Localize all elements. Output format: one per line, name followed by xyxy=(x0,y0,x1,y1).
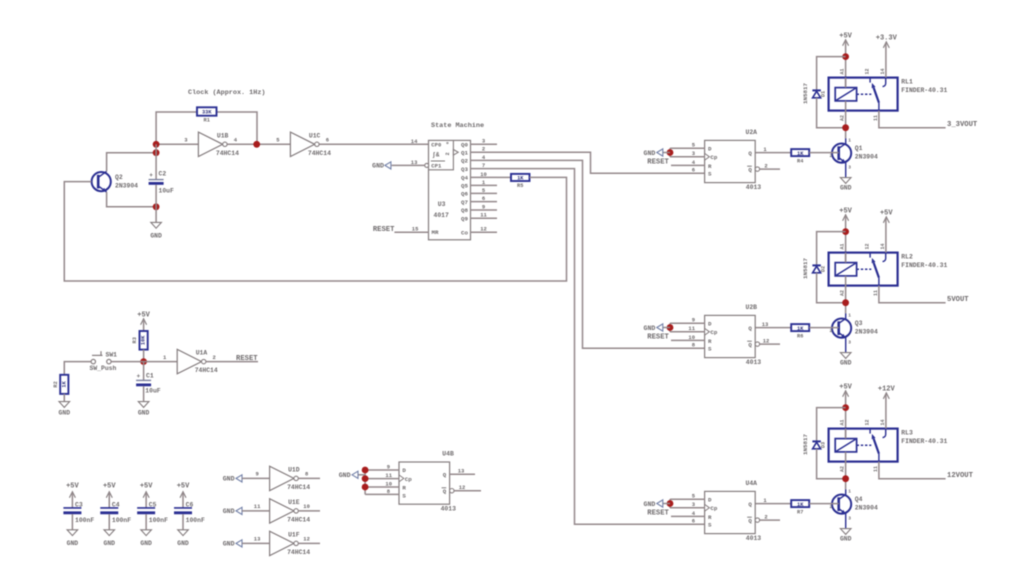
svg-text:2: 2 xyxy=(830,328,833,334)
svg-text:4013: 4013 xyxy=(746,535,762,542)
transistor Q1 2N3904 xyxy=(830,138,878,178)
wire RESET to R pin xyxy=(671,339,705,341)
node coil+ junction xyxy=(842,53,849,60)
ground flag U1E input xyxy=(223,507,242,515)
op-amp U3 4017 counter body xyxy=(425,140,471,239)
capacitor C6 100nF xyxy=(174,502,205,524)
svg-text:+5V: +5V xyxy=(839,383,852,391)
node reset junction xyxy=(140,358,147,365)
ground under Q3 xyxy=(840,353,852,367)
svg-text:+5V: +5V xyxy=(839,32,852,40)
wire switch right xyxy=(111,361,177,363)
wire C2 to GND xyxy=(155,185,157,223)
svg-text:GND: GND xyxy=(59,410,71,417)
svg-text:RESET: RESET xyxy=(647,333,669,341)
wire D to gnd xyxy=(670,147,705,149)
svg-text:+5V: +5V xyxy=(839,207,852,215)
svg-text:RESET: RESET xyxy=(647,509,669,517)
svg-text:9: 9 xyxy=(482,203,485,210)
svg-text:2: 2 xyxy=(764,513,767,520)
wire relay A2 to collector xyxy=(845,452,847,490)
svg-text:12: 12 xyxy=(763,337,770,344)
wire pin 11 to output xyxy=(879,111,946,128)
svg-text:5VOUT: 5VOUT xyxy=(947,296,969,304)
svg-text:A1: A1 xyxy=(840,419,846,425)
wire U3 CP1 to GND flag xyxy=(392,164,425,166)
wire relay A1 inside xyxy=(845,429,847,439)
svg-text:1K: 1K xyxy=(797,326,804,332)
svg-text:Co: Co xyxy=(461,229,468,236)
wire diode branch top xyxy=(817,408,846,442)
svg-text:4013: 4013 xyxy=(441,506,457,513)
svg-text:D3: D3 xyxy=(820,442,826,448)
svg-text:S: S xyxy=(708,171,712,178)
wire Q4 to R5 xyxy=(497,176,511,178)
svg-text:FINDER-40.31: FINDER-40.31 xyxy=(901,262,947,269)
svg-text:GND: GND xyxy=(372,163,384,170)
power +5V C5 xyxy=(140,482,153,497)
svg-text:12VOUT: 12VOUT xyxy=(947,472,974,480)
wire R4 to base xyxy=(809,152,839,154)
wire +3.3V to pin 14 xyxy=(885,43,887,78)
wire U3 Q2 stub pin 4 xyxy=(471,159,498,161)
svg-text:GND: GND xyxy=(138,410,150,417)
svg-text:GND: GND xyxy=(644,501,656,508)
wire U1C out to U3 CP0 xyxy=(319,143,428,145)
ground flag U2A xyxy=(644,149,670,157)
wire node to C1 xyxy=(143,362,145,380)
svg-text:Q: Q xyxy=(748,518,752,525)
svg-text:1K: 1K xyxy=(61,380,67,387)
svg-text:R: R xyxy=(402,484,406,491)
wire Cp to gnd xyxy=(670,148,705,157)
svg-text:S: S xyxy=(402,492,406,499)
svg-text:13: 13 xyxy=(762,321,769,328)
power +5V relay contact xyxy=(880,210,893,223)
svg-text:Cp: Cp xyxy=(710,505,717,512)
svg-text:R: R xyxy=(708,163,712,170)
ground under C1 xyxy=(138,402,150,417)
wire U1F output stub xyxy=(298,542,320,544)
svg-text:U1C: U1C xyxy=(309,132,321,139)
node coil+ junction xyxy=(842,228,849,235)
svg-text:RESET: RESET xyxy=(236,355,258,363)
wire diode branch bottom xyxy=(817,273,846,303)
wire relay A1 inside xyxy=(845,78,847,88)
op-amp U4A 4013 flip-flop xyxy=(705,480,762,542)
wire U3 Q0 stub pin 3 xyxy=(471,143,498,145)
svg-text:1N5817: 1N5817 xyxy=(802,83,809,104)
svg-text:U1E: U1E xyxy=(288,499,300,506)
svg-text:Clock (Approx. 1Hz): Clock (Approx. 1Hz) xyxy=(188,89,266,97)
svg-text:Q3: Q3 xyxy=(855,320,863,327)
svg-text:RESET: RESET xyxy=(373,226,395,234)
svg-text:GND: GND xyxy=(223,541,235,548)
wire +5V to C3 xyxy=(71,493,73,508)
node U1B input junction xyxy=(153,141,160,148)
node A2 junction xyxy=(842,475,849,482)
power +5V C4 xyxy=(103,482,116,497)
wire Q1 to U2A S xyxy=(497,152,705,173)
svg-text:74HC14: 74HC14 xyxy=(287,516,310,523)
svg-text:100nF: 100nF xyxy=(149,517,168,524)
wire Q2 emitter xyxy=(107,192,157,207)
svg-text:R4: R4 xyxy=(797,158,804,164)
svg-text:R2: R2 xyxy=(53,381,59,387)
svg-text:GND: GND xyxy=(177,540,189,547)
svg-text:U4B: U4B xyxy=(442,450,454,457)
ground under C6 xyxy=(177,530,189,547)
svg-text:10K: 10K xyxy=(141,335,147,345)
op-amp U1E (74HC14 inverter) xyxy=(254,499,310,524)
svg-text:Q2: Q2 xyxy=(461,158,468,165)
svg-text:3: 3 xyxy=(848,340,851,346)
wire U3 Q7 stub pin 6 xyxy=(471,201,498,203)
resistor R6 1K xyxy=(791,324,809,339)
svg-text:1K: 1K xyxy=(797,502,804,508)
ground flag U1F input xyxy=(223,540,242,548)
wire U3 Q9 stub pin 11 xyxy=(471,217,498,219)
capacitor C4 100nF xyxy=(100,502,131,524)
resistor R7 1K xyxy=(791,500,809,515)
svg-text:RL2: RL2 xyxy=(901,254,913,261)
svg-text:74HC14: 74HC14 xyxy=(195,367,218,374)
wire switch left xyxy=(64,362,91,375)
relay RL1 FINDER-40.31 xyxy=(829,68,948,121)
node C2 bottom junction xyxy=(153,203,160,210)
svg-text:U1D: U1D xyxy=(288,466,300,473)
node coil+ junction xyxy=(842,404,849,411)
transistor Q3 2N3904 xyxy=(830,313,878,353)
svg-text:12: 12 xyxy=(864,419,870,425)
power +12V relay contact xyxy=(878,386,896,399)
wire C4 to GND xyxy=(108,514,110,530)
wire gnd to U1E xyxy=(242,510,270,512)
svg-text:Q: Q xyxy=(443,488,447,495)
svg-text:14: 14 xyxy=(880,419,886,425)
wire +5V to R3 xyxy=(143,320,145,332)
node U4B Cp junction xyxy=(362,475,369,482)
wire 4013 Q to R7 xyxy=(755,503,791,505)
wire relay A2 to collector xyxy=(845,276,847,314)
svg-text:º: º xyxy=(446,141,449,148)
svg-text:GND: GND xyxy=(223,476,235,483)
svg-text:4013: 4013 xyxy=(746,184,762,191)
capacitor C2 xyxy=(149,171,174,195)
svg-text:74HC14: 74HC14 xyxy=(287,484,310,491)
node Q2 collector junction xyxy=(153,149,160,156)
svg-text:SW1: SW1 xyxy=(106,352,118,359)
svg-text:6: 6 xyxy=(692,518,695,525)
svg-text:D: D xyxy=(708,321,712,328)
wire diode branch bottom xyxy=(817,449,846,479)
svg-text:10uF: 10uF xyxy=(145,388,161,395)
svg-text:D: D xyxy=(402,467,406,474)
svg-text:R1: R1 xyxy=(204,117,210,123)
svg-text:C2: C2 xyxy=(159,171,167,178)
svg-text:1: 1 xyxy=(848,313,851,319)
svg-text:11: 11 xyxy=(873,466,879,472)
svg-text:+: + xyxy=(149,172,153,179)
svg-text:CP0: CP0 xyxy=(431,141,442,148)
wire relay A2 to collector xyxy=(845,101,847,138)
svg-text:2: 2 xyxy=(213,354,216,361)
node U4B R junction xyxy=(362,484,369,491)
svg-text:U4A: U4A xyxy=(746,480,758,487)
svg-text:7: 7 xyxy=(482,162,485,169)
wire U3 Q4 stub pin 10 xyxy=(471,176,498,178)
svg-text:1N5817: 1N5817 xyxy=(802,258,809,279)
svg-text:SW_Push: SW_Push xyxy=(90,365,117,372)
pin labels U4B xyxy=(385,463,465,495)
svg-text:U2A: U2A xyxy=(746,129,758,136)
svg-text:U3: U3 xyxy=(438,201,446,208)
ground under C4 xyxy=(104,530,116,547)
svg-text:2: 2 xyxy=(764,162,767,169)
wire U1B input xyxy=(156,143,198,145)
svg-text:10: 10 xyxy=(480,171,487,178)
wire diode branch bottom xyxy=(817,98,846,128)
capacitor C5 100nF xyxy=(137,502,168,524)
wire R2 to GND xyxy=(63,394,65,402)
svg-text:GND: GND xyxy=(140,540,152,547)
wire RESET to R pin xyxy=(671,515,705,517)
svg-text:4013: 4013 xyxy=(746,359,762,366)
svg-text:GND: GND xyxy=(150,233,162,240)
power +5V RL1 coil xyxy=(839,32,852,45)
svg-text:74HC14: 74HC14 xyxy=(308,150,331,157)
wire Q2 to U2B S xyxy=(497,160,705,348)
wire pin 11 to output xyxy=(879,462,946,479)
svg-text:U2B: U2B xyxy=(746,304,758,311)
svg-text:Q: Q xyxy=(748,167,752,174)
svg-text:1: 1 xyxy=(848,138,851,144)
power +3.3V relay contact xyxy=(876,35,898,48)
svg-text:A2: A2 xyxy=(840,290,846,296)
node U4B D junction xyxy=(362,467,369,474)
power +5V C3 xyxy=(66,482,79,497)
svg-text:2N3904: 2N3904 xyxy=(115,183,138,190)
power +5V RL2 coil xyxy=(839,207,852,220)
svg-text:1K: 1K xyxy=(797,151,804,157)
svg-text:11: 11 xyxy=(873,290,879,296)
svg-text:Q: Q xyxy=(443,471,447,478)
wire Q3 to U4A S xyxy=(497,169,705,525)
wire C1 to GND xyxy=(143,386,145,401)
svg-text:+5V: +5V xyxy=(177,482,190,490)
node gnd tie junction xyxy=(667,324,674,331)
node U1B output junction xyxy=(253,141,260,148)
svg-text:CP1: CP1 xyxy=(431,163,442,170)
node A2 junction xyxy=(842,299,849,306)
op-amp U1A (74HC14 inverter) xyxy=(163,349,218,374)
svg-text:74HC14: 74HC14 xyxy=(287,549,310,556)
wire gnd to U1F xyxy=(242,542,270,544)
svg-text:U1F: U1F xyxy=(288,531,300,538)
svg-text:1K: 1K xyxy=(517,176,524,182)
wire RESET to R pin xyxy=(671,164,705,166)
wire R6 to base xyxy=(809,327,839,329)
svg-text:Q: Q xyxy=(748,342,752,349)
relay RL2 FINDER-40.31 xyxy=(829,243,948,296)
svg-text:Cp: Cp xyxy=(405,476,412,483)
svg-text:Q1: Q1 xyxy=(855,145,863,152)
ground under C5 xyxy=(140,530,152,547)
resistor R3 xyxy=(132,331,148,350)
wire +5V to C5 xyxy=(145,493,147,508)
diode D2 1N5817 xyxy=(802,258,826,279)
svg-text:10uF: 10uF xyxy=(159,188,175,195)
svg-text:2: 2 xyxy=(445,152,451,155)
svg-text:R6: R6 xyxy=(797,333,803,339)
svg-text:MR: MR xyxy=(432,229,439,236)
svg-text:4017: 4017 xyxy=(434,212,450,219)
svg-text:12: 12 xyxy=(459,484,466,491)
svg-text:D: D xyxy=(708,497,712,504)
svg-text:RESET: RESET xyxy=(647,158,669,166)
svg-text:Q4: Q4 xyxy=(461,175,468,182)
wire +5V to relay A1 xyxy=(845,392,847,439)
wire +5V to C4 xyxy=(108,493,110,508)
wire +5V to relay A1 xyxy=(845,216,847,263)
svg-text:10: 10 xyxy=(303,503,310,510)
wire RESET to MR xyxy=(394,231,428,233)
svg-text:3: 3 xyxy=(848,165,851,171)
svg-text:Q: Q xyxy=(748,150,752,157)
ground under R2 xyxy=(59,402,71,417)
svg-text:A2: A2 xyxy=(840,115,846,121)
wire U1E output stub xyxy=(298,510,320,512)
svg-text:+5V: +5V xyxy=(103,482,116,490)
wire U1B out to U1C in xyxy=(227,143,290,145)
op-amp U2B 4013 flip-flop xyxy=(705,304,762,366)
svg-text:D2: D2 xyxy=(820,266,826,272)
svg-text:GND: GND xyxy=(339,472,351,479)
wire U1D output stub xyxy=(298,477,320,479)
svg-text:RL3: RL3 xyxy=(901,430,913,437)
wire D to gnd xyxy=(670,498,705,500)
ground under Q1 xyxy=(840,178,852,192)
svg-text:11: 11 xyxy=(873,115,879,121)
svg-text:C6: C6 xyxy=(186,502,194,509)
capacitor C1 xyxy=(136,373,161,395)
svg-text:Q5: Q5 xyxy=(461,183,468,190)
wire U4B Q stub xyxy=(450,473,475,475)
svg-text:C5: C5 xyxy=(149,502,157,509)
transistor Q4 2N3904 xyxy=(830,489,878,529)
svg-text:R: R xyxy=(708,514,712,521)
svg-text:14: 14 xyxy=(411,138,418,145)
svg-text:74HC14: 74HC14 xyxy=(216,150,239,157)
svg-text:6: 6 xyxy=(326,137,329,144)
svg-text:9: 9 xyxy=(255,471,258,478)
svg-text:11: 11 xyxy=(688,325,695,332)
svg-text:Q: Q xyxy=(748,325,752,332)
svg-text:GND: GND xyxy=(840,359,852,366)
svg-text:13: 13 xyxy=(254,536,261,543)
wire D to gnd xyxy=(670,322,705,324)
svg-text:10: 10 xyxy=(385,481,392,488)
wire pin 11 to output xyxy=(879,286,946,303)
svg-text:1N5817: 1N5817 xyxy=(802,434,809,455)
op-amp U2A 4013 flip-flop xyxy=(705,129,762,191)
wire U4B Qbar stub xyxy=(454,490,481,492)
wire Cp to gnd xyxy=(670,499,705,508)
svg-text:RL1: RL1 xyxy=(901,79,913,86)
pin labels U2A xyxy=(692,142,768,174)
svg-text:A2: A2 xyxy=(840,466,846,472)
power +5V reset pullup xyxy=(137,312,150,325)
svg-text:Q9: Q9 xyxy=(461,215,468,222)
svg-text:3_3VOUT: 3_3VOUT xyxy=(947,121,978,129)
svg-text:C1: C1 xyxy=(146,373,154,380)
power +5V C6 xyxy=(177,482,190,497)
svg-text:2N3904: 2N3904 xyxy=(855,504,878,511)
svg-text:2: 2 xyxy=(830,504,833,510)
svg-text:R3: R3 xyxy=(132,337,138,343)
resistor R4 1K xyxy=(791,149,809,164)
svg-text:11: 11 xyxy=(385,472,392,479)
svg-text:11: 11 xyxy=(254,503,261,510)
svg-text:ʃ&: ʃ& xyxy=(432,151,440,158)
op-amp U1D (74HC14 inverter) xyxy=(255,466,310,491)
svg-text:1: 1 xyxy=(848,489,851,495)
svg-text:12: 12 xyxy=(480,226,487,233)
svg-text:12: 12 xyxy=(864,68,870,74)
wire U3 Q3 stub pin 7 xyxy=(471,168,498,170)
svg-text:10: 10 xyxy=(688,334,695,341)
wire +5V to C6 xyxy=(182,493,184,508)
wire U1A out RESET xyxy=(206,361,258,363)
svg-text:A1: A1 xyxy=(840,243,846,249)
svg-text:R: R xyxy=(708,338,712,345)
svg-text:R5: R5 xyxy=(517,183,523,189)
svg-text:14: 14 xyxy=(880,68,886,74)
svg-text:+5V: +5V xyxy=(140,482,153,490)
svg-text:2N3904: 2N3904 xyxy=(855,153,878,160)
svg-text:FINDER-40.31: FINDER-40.31 xyxy=(901,87,947,94)
ground flag U4A xyxy=(644,500,670,508)
wire gnd to U1D xyxy=(242,477,270,479)
ground under C2 xyxy=(150,222,162,239)
wire relay A1 inside xyxy=(845,253,847,263)
svg-text:12: 12 xyxy=(303,536,310,543)
wire U3 Q5 stub pin 1 xyxy=(471,184,498,186)
wire U3 Co stub pin 12 xyxy=(471,231,498,233)
svg-text:D1: D1 xyxy=(820,91,826,97)
wire U3 Q1 stub pin 2 xyxy=(471,151,498,153)
svg-text:U1B: U1B xyxy=(217,132,229,139)
ground flag U4B xyxy=(339,471,365,479)
svg-text:6: 6 xyxy=(482,195,485,202)
svg-text:9: 9 xyxy=(692,317,695,324)
svg-text:R7: R7 xyxy=(797,509,803,515)
svg-text:S: S xyxy=(708,522,712,529)
svg-text:Cp: Cp xyxy=(710,329,717,336)
wire U4B gnd bus xyxy=(365,470,399,494)
svg-text:Q7: Q7 xyxy=(461,199,468,206)
svg-text:100nF: 100nF xyxy=(75,517,94,524)
diode D3 1N5817 xyxy=(802,434,826,455)
svg-text:GND: GND xyxy=(644,150,656,157)
op-amp U4B 4013 flip-flop xyxy=(399,450,456,512)
wire U3 Q6 stub pin 5 xyxy=(471,192,498,194)
wire R3 to node xyxy=(143,350,145,362)
capacitor C3 100nF xyxy=(63,502,94,524)
wire Qbar stub xyxy=(760,168,780,170)
ground flag U2B xyxy=(644,324,670,332)
ground flag CP1 xyxy=(372,162,391,170)
